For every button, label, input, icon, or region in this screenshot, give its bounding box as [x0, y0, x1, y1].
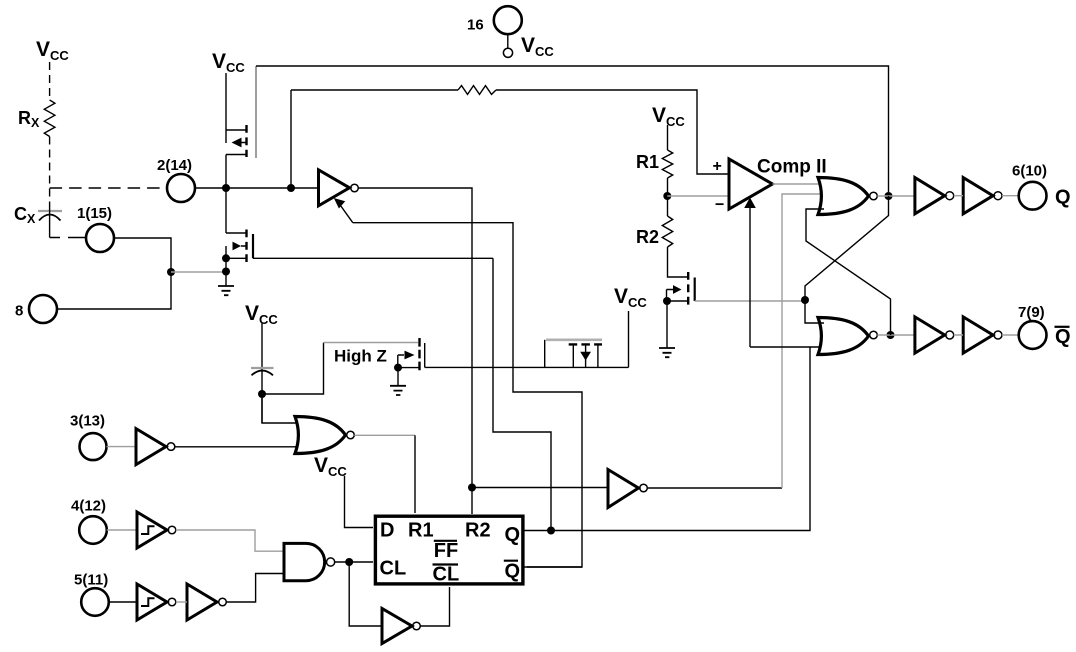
wire U1 control to FF Qbar routing	[353, 223, 582, 567]
svg-text:+: +	[713, 158, 722, 175]
inverter U10 (CLbar)	[382, 609, 412, 644]
wire U13 to U14, U14 to pin (gray)	[954, 195, 1019, 197]
power VCC (above pass transistor Q4)	[628, 311, 630, 367]
wire Q2 gate routing to FF Q line	[493, 258, 551, 531]
power VCC (pin 16)	[521, 34, 554, 59]
buffer U3	[136, 429, 166, 465]
wire Q3 source to ground	[666, 301, 668, 348]
node R1/R2 divider	[663, 192, 671, 200]
svg-text:8: 8	[15, 303, 23, 320]
wire VCC to FF D	[345, 476, 374, 528]
svg-text:16: 16	[467, 17, 484, 34]
transistor Q2 (NMOS, discharge)	[226, 233, 246, 258]
svg-text:1(15): 1(15)	[77, 205, 112, 222]
power VCC (top-left, above RX)	[36, 38, 69, 63]
svg-text:2(14): 2(14)	[157, 157, 192, 174]
wire pin 3(13) to buffer (gray)	[107, 446, 137, 448]
svg-text:Q: Q	[1055, 187, 1071, 209]
svg-text:High Z: High Z	[334, 347, 387, 366]
svg-text:R1: R1	[408, 520, 434, 542]
power VCC (left of Q3)	[614, 285, 647, 310]
svg-text:Q: Q	[505, 524, 521, 546]
wire VCC to PMOS Q1	[225, 73, 227, 188]
wire U1 output to R2 column	[358, 188, 472, 514]
wire VCC to C2	[261, 323, 263, 423]
resistor R (feedback, small)	[458, 86, 496, 95]
transistor Q5 (High-Z NMOS)	[418, 338, 420, 372]
svg-text:Q: Q	[1055, 326, 1071, 348]
wire U6 to U7	[176, 601, 187, 603]
ground (below Q3)	[659, 348, 675, 357]
power VCC (to FF D input)	[314, 454, 347, 479]
label Qbar output	[1055, 326, 1071, 348]
wire inverter U8 output to NOR1 input (gray)	[648, 487, 782, 489]
node NOR2 output	[887, 331, 895, 339]
wire latch node to NOR2 top input	[805, 300, 824, 323]
wire NOR1 output to buffers	[877, 195, 914, 197]
pin 5(11)	[81, 588, 109, 616]
wire NOR3 output to FF R1 (gray)	[354, 434, 415, 436]
node NOR1 output	[885, 192, 893, 200]
wire pin 8 to junction	[57, 272, 171, 309]
comparator U2 Comp II	[729, 159, 773, 209]
node junction 1(15)/8	[167, 268, 175, 276]
wire pin 5(11) to U6	[109, 601, 137, 603]
inverter U8 (comp/NOR1 driver)	[608, 470, 639, 508]
wire R1 to node	[667, 178, 669, 216]
svg-text:R2: R2	[636, 227, 659, 247]
wire Comp II output to NOR1 (gray)	[773, 183, 825, 185]
buffer U14	[963, 178, 993, 214]
svg-text:VCC: VCC	[652, 104, 685, 129]
pin 3(13)	[80, 433, 107, 460]
node R2-column / inverter tap	[468, 484, 476, 492]
svg-text:VCC: VCC	[314, 454, 347, 479]
node Q2 source/bulk	[222, 254, 230, 262]
wire pin 4(12) to U5 (gray)	[107, 529, 137, 531]
node Q3 source/bulk	[663, 297, 671, 305]
wire node C2 to NOR3 input	[262, 394, 302, 423]
wire U5 to NAND input (gray)	[176, 530, 284, 551]
label Q output	[1055, 187, 1071, 209]
capacitor C2	[251, 367, 274, 369]
node latch (NOR1/Q3/NOR2)	[801, 296, 809, 304]
wire resistor tap down to node 2(14)	[290, 90, 292, 188]
power VCC (above R1)	[652, 104, 685, 129]
svg-text:CX: CX	[14, 204, 36, 226]
svg-text:Q: Q	[505, 561, 521, 583]
inverter U6 (Schmitt)	[137, 584, 167, 620]
wire Q3 gate to latch node (gray)	[695, 300, 805, 302]
pin 6(10)	[1019, 182, 1047, 210]
wire NOR2 output to buffers	[877, 334, 914, 336]
node on FF Q line	[547, 527, 555, 535]
node NAND output	[345, 558, 353, 566]
NAND gate U9	[284, 543, 325, 580]
node C2 / High-Z gate	[258, 390, 266, 398]
wire CX to pin 1(15) (dash-dot)	[50, 202, 86, 238]
wire pin 1(15) to junction	[114, 238, 171, 272]
wire U15 to U16, U16 to pin (gray)	[954, 334, 1019, 336]
svg-text:D: D	[380, 520, 394, 542]
resistor RX	[44, 100, 55, 137]
wire NAND output to FF CL	[335, 561, 373, 563]
svg-text:R1: R1	[636, 152, 659, 172]
wire top rail (Q1 gate to NOR1 output)	[256, 66, 889, 192]
wire node to Q2 drain	[225, 188, 227, 286]
node Q5 source	[394, 364, 402, 372]
wire R2 to Q3 drain	[668, 247, 689, 277]
svg-text:VCC: VCC	[36, 38, 69, 63]
wire U10 output to FF CLbar	[420, 587, 449, 626]
svg-text:4(12): 4(12)	[71, 498, 106, 515]
svg-text:CL: CL	[380, 558, 407, 580]
wire FF Qbar output stub	[523, 566, 582, 568]
NOR gate U11 (latch upper)	[818, 178, 869, 215]
wire U7 to NAND input	[226, 574, 284, 603]
pin 16	[494, 6, 522, 34]
svg-text:7(9): 7(9)	[1018, 304, 1045, 321]
transistor Q4 (pass, diode-connected)	[425, 366, 629, 368]
pin 7(9)	[1019, 321, 1047, 349]
buffer U15	[915, 317, 945, 353]
wire FF Q output to latch	[523, 347, 810, 531]
resistor R1	[662, 150, 672, 178]
pin 4(12)	[79, 516, 107, 544]
ground (below Q2)	[218, 286, 234, 295]
svg-text:6(10): 6(10)	[1012, 163, 1047, 180]
wire cross-couple NOR1 out to NOR2 in	[805, 196, 889, 300]
wire dashed RX to node/CX	[49, 137, 51, 203]
svg-text:Comp II: Comp II	[757, 157, 827, 178]
wire Q1 gate up to top rail (gray)	[255, 66, 257, 158]
capacitor CX	[38, 210, 62, 212]
wire FF Q line to NOR2 input and comp arrow	[750, 346, 824, 348]
control arrow into U1 (from FF Qbar)	[341, 206, 353, 223]
wire pin16 stub	[507, 34, 509, 48]
power VCC (above capacitor C2)	[245, 302, 278, 327]
flip-flop FF block	[375, 516, 523, 584]
svg-text:R2: R2	[465, 520, 491, 542]
svg-text:3(13): 3(13)	[70, 413, 105, 430]
svg-text:FF: FF	[434, 540, 458, 562]
wire NAND node to inverter U10	[349, 562, 382, 626]
inverter U5 (Schmitt)	[137, 512, 167, 548]
pin16 open terminal	[503, 48, 512, 57]
pin 1(15)	[86, 224, 114, 252]
svg-text:VCC: VCC	[614, 285, 647, 310]
wire node to inverter U8 input	[472, 487, 608, 489]
FF overline marks	[433, 541, 519, 565]
wire dashed node to pin 2(14)	[50, 187, 166, 189]
buffer U7	[187, 584, 217, 620]
wire cross-couple NOR2 out to NOR1 in	[806, 209, 891, 335]
resistor R2	[662, 216, 672, 247]
wire VCC to R1	[667, 125, 669, 150]
NOR gate U4 (reset)	[295, 417, 346, 454]
buffer U16	[963, 317, 993, 353]
NOR gate U12 (latch lower)	[818, 318, 869, 355]
wire feedback resistor rail	[291, 90, 729, 174]
node 2(14) rail	[195, 187, 318, 189]
svg-text:−: −	[715, 197, 724, 214]
wire node to Comp II inverting input (gray)	[667, 195, 729, 197]
power VCC (above PMOS Q1)	[212, 50, 245, 75]
inverter U1 (controlled, at node)	[319, 170, 350, 206]
svg-text:VCC: VCC	[212, 50, 245, 75]
svg-text:5(11): 5(11)	[74, 572, 108, 589]
wire buffer U3 to NOR3 input	[175, 446, 302, 448]
buffer U13	[915, 178, 945, 214]
control arrow into Comp II (from FF Q)	[749, 208, 751, 347]
transistor Q3 (NMOS at R2 bottom)	[687, 272, 689, 305]
svg-text:CL: CL	[433, 564, 460, 586]
transistor Q1 (PMOS, pull-up)	[226, 130, 246, 155]
ground (below Q5)	[390, 386, 406, 395]
wire Q5 source to ground	[397, 368, 399, 386]
wire node to Q5 gate (gray)	[262, 343, 324, 395]
pin 2(14)	[167, 174, 195, 202]
wire dashed VCC to RX	[49, 62, 51, 100]
pin 8	[29, 295, 57, 323]
svg-text:VCC: VCC	[521, 34, 554, 59]
svg-text:RX: RX	[18, 108, 40, 130]
wire junction to NMOS bulk (gray)	[171, 271, 226, 273]
